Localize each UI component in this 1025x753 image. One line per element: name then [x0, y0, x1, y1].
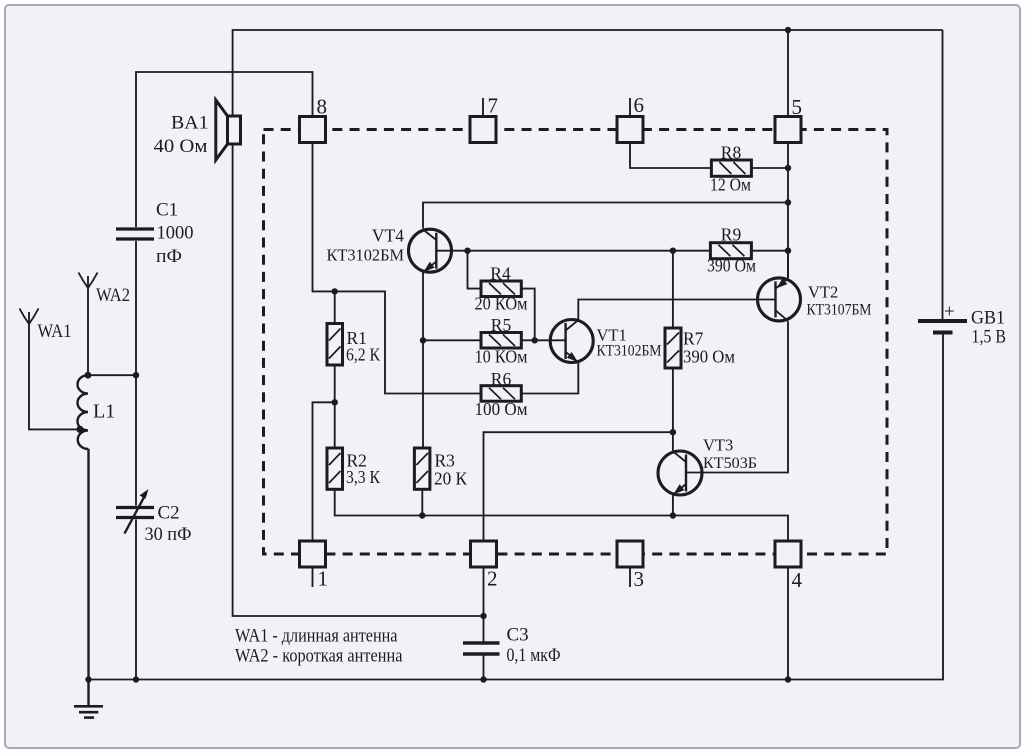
- wire top supply rail: [233, 30, 943, 116]
- resistor R4: [475, 264, 528, 314]
- node R8 rail: [785, 165, 791, 171]
- svg-text:390 Ом: 390 Ом: [683, 347, 735, 367]
- pin 4: [775, 541, 803, 592]
- node VT4 base / R4: [464, 248, 470, 254]
- node top rail / pin5 junction: [785, 27, 791, 33]
- wire R1 bottom to R2 top: [334, 365, 336, 448]
- pin 6: [617, 93, 644, 143]
- wire WA2 mast: [87, 288, 89, 375]
- svg-text:КТ3102БМ: КТ3102БМ: [597, 343, 662, 360]
- pin 2: [471, 541, 498, 591]
- svg-text:10 КОм: 10 КОм: [475, 347, 528, 367]
- battery GB1: [918, 302, 1006, 348]
- transistor VT4: [327, 226, 452, 273]
- svg-text:C1: C1: [156, 200, 178, 221]
- ground: [74, 706, 103, 717]
- wire pin8 down: [313, 143, 482, 394]
- pin 5: [775, 95, 802, 143]
- wire L1 top to C-branch: [88, 374, 136, 376]
- node VT3 emitter: [670, 512, 676, 518]
- svg-text:R8: R8: [721, 143, 742, 163]
- node R1/R2/pin1: [332, 399, 338, 405]
- IC dashed boundary box: [264, 130, 888, 555]
- wire emitter rail to pin4: [673, 516, 788, 542]
- wire VT4 base net to R9: [436, 250, 710, 252]
- node rail at R9: [785, 248, 791, 254]
- node VT4 emitter column / R5: [420, 337, 426, 343]
- wire R2 bottom: [335, 489, 673, 515]
- wire VT2 collector to VT3 base: [686, 321, 788, 472]
- svg-text:4: 4: [792, 568, 803, 592]
- transistor VT1: [550, 320, 661, 363]
- wire R7 top lead: [672, 251, 674, 328]
- svg-text:40 Ом: 40 Ом: [154, 136, 208, 157]
- wire R7 bottom to VT3 collector: [672, 368, 674, 451]
- wire R9 right to rail: [751, 250, 788, 252]
- svg-text:6,2 К: 6,2 К: [346, 345, 380, 365]
- svg-text:КТ3107БМ: КТ3107БМ: [807, 302, 872, 319]
- svg-text:WA1 - длинная антенна: WA1 - длинная антенна: [235, 626, 398, 647]
- resistor R6: [475, 369, 528, 419]
- svg-text:R6: R6: [491, 369, 512, 389]
- wire pin4 down to rail: [787, 567, 789, 680]
- svg-text:R9: R9: [721, 225, 742, 245]
- svg-text:3,3 К: 3,3 К: [346, 467, 380, 487]
- svg-text:+: +: [944, 302, 955, 323]
- svg-text:1000: 1000: [157, 223, 194, 244]
- wire bottom ground rail: [89, 335, 944, 680]
- wire VT4 emitter down to R3: [422, 273, 424, 449]
- wire speaker bottom down to C3 node: [233, 144, 484, 616]
- svg-text:VT3: VT3: [703, 436, 733, 455]
- svg-text:R7: R7: [683, 329, 704, 349]
- node ground rail left: [85, 676, 91, 682]
- svg-text:6: 6: [634, 93, 645, 117]
- wire R6 right to VT1 emitter: [521, 362, 578, 393]
- svg-text:7: 7: [488, 94, 499, 118]
- wire C1 bottom down through C2: [135, 241, 137, 506]
- svg-text:C2: C2: [158, 503, 180, 524]
- node L1 tap: [76, 426, 83, 433]
- svg-text:390 Ом: 390 Ом: [707, 256, 756, 276]
- svg-text:30 пФ: 30 пФ: [145, 524, 192, 545]
- svg-text:12 Ом: 12 Ом: [710, 175, 751, 195]
- node R1 top: [332, 288, 338, 294]
- svg-text:WA1: WA1: [38, 321, 72, 342]
- node R7 top: [670, 248, 676, 254]
- wire VT1 collector to VT2 base: [578, 300, 775, 320]
- capacitor C1: [116, 200, 194, 268]
- svg-text:WA2 - короткая антенна: WA2 - короткая антенна: [235, 646, 403, 667]
- resistor R1: [327, 324, 380, 366]
- resistor R8: [710, 143, 751, 195]
- svg-text:R3: R3: [435, 451, 456, 471]
- transistor VT2: [758, 278, 872, 321]
- resistor R5: [475, 315, 528, 367]
- antenna WA1: [20, 309, 72, 343]
- node R3 bottom: [419, 512, 425, 518]
- svg-text:BA1: BA1: [171, 113, 209, 134]
- wire pin2 down to C3: [483, 567, 485, 642]
- node R4/R5 join: [532, 337, 538, 343]
- node C branch at L1 level: [133, 372, 139, 378]
- svg-text:пФ: пФ: [156, 246, 182, 267]
- wire battery top lead: [942, 30, 944, 319]
- svg-text:3: 3: [634, 567, 645, 591]
- resistor R3: [414, 448, 467, 489]
- note antenna legend: [235, 626, 403, 667]
- svg-text:C3: C3: [507, 625, 529, 646]
- svg-text:КТ503Б: КТ503Б: [703, 455, 757, 472]
- svg-text:20 КОм: 20 КОм: [475, 294, 528, 314]
- svg-text:20 К: 20 К: [434, 469, 467, 489]
- node rail at y203: [785, 199, 791, 205]
- wire R4 left drop: [468, 251, 482, 289]
- wire pin5 to top rail: [787, 30, 789, 117]
- svg-text:0,1 мкФ: 0,1 мкФ: [507, 645, 561, 666]
- svg-text:R4: R4: [490, 264, 511, 284]
- wire C1 top to pin 8: [136, 72, 313, 227]
- node C3 bottom rail: [480, 676, 486, 682]
- wire pin2 branch: [484, 432, 673, 541]
- capacitor C3: [463, 625, 561, 667]
- wire pin6 to R8: [630, 143, 711, 169]
- node C3 top: [480, 613, 486, 619]
- inductor L1: [77, 375, 115, 449]
- node L1 top / WA2: [85, 372, 92, 379]
- wire WA1 mast and tap lead: [29, 324, 80, 429]
- wire R4 right to R5 right: [521, 289, 534, 341]
- wire VT4 collector to rail: [423, 203, 788, 229]
- wire R8 right to rail: [751, 167, 788, 169]
- antenna WA2: [79, 273, 131, 307]
- speaker BA1: [154, 100, 241, 160]
- wire junction to pin1: [313, 402, 335, 541]
- svg-text:WA2: WA2: [96, 285, 130, 306]
- transistor VT3: [658, 436, 757, 496]
- svg-text:R5: R5: [491, 315, 512, 335]
- svg-text:100 Ом: 100 Ом: [475, 399, 528, 419]
- capacitor C2 (variable): [116, 489, 192, 545]
- svg-text:1: 1: [318, 567, 329, 591]
- wire C3 bottom: [483, 656, 485, 680]
- wire VT3 emitter lead: [672, 495, 674, 516]
- svg-text:КТ3102БМ: КТ3102БМ: [327, 246, 405, 265]
- pin 8: [300, 95, 328, 143]
- svg-text:L1: L1: [93, 401, 115, 423]
- svg-text:1,5 В: 1,5 В: [972, 327, 1007, 348]
- svg-text:5: 5: [792, 95, 803, 119]
- node C-branch bottom: [133, 676, 139, 682]
- svg-text:VT4: VT4: [372, 226, 404, 246]
- wire pin5 rail down to VT2: [787, 143, 789, 279]
- wire C2 bottom to ground rail: [135, 520, 137, 680]
- wire VT2 emitter up: [787, 251, 789, 279]
- resistor R2: [327, 448, 380, 489]
- resistor R9: [707, 225, 756, 276]
- pin 7: [470, 94, 498, 143]
- wire L1 bottom to ground: [87, 449, 89, 706]
- resistor R7: [665, 328, 735, 368]
- wire R5 left to emitter column: [423, 339, 481, 341]
- svg-text:GB1: GB1: [971, 308, 1005, 329]
- pin 1: [300, 541, 329, 591]
- svg-text:8: 8: [317, 95, 328, 119]
- svg-text:2: 2: [487, 567, 498, 591]
- wire R5 right to VT1 base: [521, 339, 565, 341]
- node pin4 rail: [785, 676, 791, 682]
- wire R1 top lead: [334, 291, 336, 323]
- wire R3 bottom lead: [421, 489, 423, 515]
- pin 3: [617, 541, 644, 591]
- svg-text:VT2: VT2: [808, 283, 838, 302]
- node VT3 collector / pin2 branch: [670, 429, 676, 435]
